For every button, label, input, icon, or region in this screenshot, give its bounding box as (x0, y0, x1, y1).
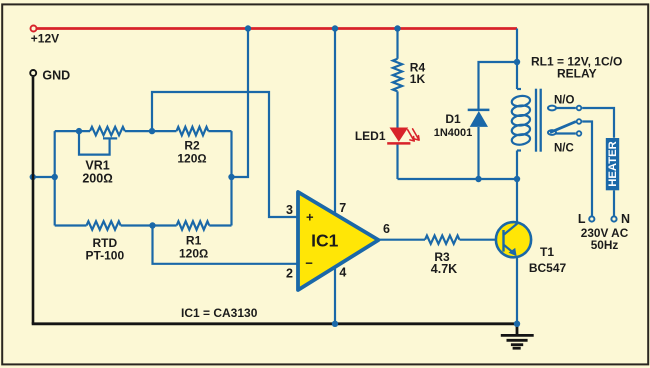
resistor R1 zigzag (177, 221, 210, 229)
wire emitter to ground (516, 255, 518, 324)
wire bridge +12V feed vertical (232, 29, 249, 178)
op-amp U1 triangle (298, 192, 379, 290)
svg-text:RELAY: RELAY (557, 66, 597, 80)
resistor VR1 zigzag (90, 127, 125, 135)
svg-text:50Hz: 50Hz (591, 238, 619, 252)
svg-text:LED1: LED1 (355, 129, 386, 143)
wire N/C pad to circle (556, 132, 576, 134)
node GND tap left (30, 174, 36, 180)
svg-text:4: 4 (339, 266, 346, 280)
terminal L (589, 216, 594, 221)
svg-text:6: 6 (383, 222, 390, 236)
node bridge right (228, 174, 234, 180)
node pin4 ground (332, 321, 338, 327)
node rail-bridge (245, 25, 251, 31)
svg-text:HEATER: HEATER (607, 141, 619, 187)
wire R4 to LED (396, 91, 398, 127)
svg-text:−: − (305, 256, 313, 271)
wire N/O to heater (582, 108, 614, 138)
terminal +12V (31, 26, 37, 32)
node emitter ground (514, 321, 520, 327)
LED1 triangle (390, 128, 409, 142)
wire R2 right (208, 130, 231, 132)
node D1 top (514, 59, 520, 65)
node C RTD-R1 (149, 222, 155, 228)
svg-text:L: L (578, 212, 586, 226)
wire N/O pad to circle (556, 107, 576, 109)
node relay bottom (514, 176, 520, 182)
svg-text:N: N (621, 212, 630, 226)
wire bridge left vertical (54, 131, 56, 225)
relay contact circle common (577, 119, 582, 124)
relay N/C contact pad (548, 130, 556, 135)
wire pin6 output (379, 239, 426, 241)
wire RTD to R1 (121, 224, 177, 226)
wire bottom horizontal LED-D1-relay (398, 178, 518, 180)
wire heater to N (613, 190, 615, 215)
svg-text:R2: R2 (184, 139, 200, 153)
resistor R4 zigzag (393, 59, 402, 92)
wire common to L (582, 122, 592, 216)
wire relay node to collector (516, 179, 518, 224)
relay coil loops (517, 88, 521, 90)
transistor collector diagonal (504, 224, 517, 235)
wire relay feed from rail (516, 29, 518, 90)
svg-text:IC1: IC1 (311, 231, 339, 251)
svg-text:200Ω: 200Ω (82, 171, 112, 185)
svg-text:+12V: +12V (31, 32, 59, 46)
node D1 bottom (475, 176, 481, 182)
wire GND black vertical (32, 77, 35, 324)
wire R3 to base (460, 239, 504, 241)
relay N/O contact pad (548, 106, 556, 111)
node rail-R4 (394, 25, 400, 31)
resistor RTD zigzag (87, 221, 121, 229)
svg-text:120Ω: 120Ω (179, 246, 208, 260)
wire R1 right (209, 224, 231, 226)
terminal N (611, 216, 616, 221)
wire bridge right vertical (230, 131, 232, 225)
diode D1 cathode bar (468, 109, 490, 112)
svg-text:IC1 = CA3130: IC1 = CA3130 (181, 306, 258, 320)
LED1 cathode bar (387, 142, 410, 145)
node A VR1-R2 (149, 128, 155, 134)
svg-text:BC547: BC547 (529, 261, 567, 275)
svg-text:4.7K: 4.7K (431, 262, 457, 276)
wire bridge bottom row left (55, 224, 87, 226)
svg-text:1N4001: 1N4001 (434, 127, 473, 139)
svg-text:1K: 1K (410, 72, 426, 86)
node GND tap right (52, 174, 58, 180)
transistor emitter diagonal (504, 245, 516, 255)
relay contact circle N/O (577, 106, 582, 111)
resistor R3 zigzag (425, 236, 459, 244)
transistor Q1 circle (496, 222, 531, 257)
heater box (606, 138, 619, 190)
svg-text:+: + (306, 210, 314, 225)
wire VR1 to R2 (125, 130, 177, 132)
wire node C to pin2 route (153, 226, 298, 264)
svg-text:N/O: N/O (554, 95, 575, 107)
svg-text:3: 3 (286, 203, 293, 217)
wire R4 branch top (396, 29, 398, 59)
svg-text:D1: D1 (445, 112, 461, 126)
terminal GND (30, 70, 36, 76)
wire ground bus black horizontal (32, 322, 518, 325)
wire node A to pin3 route (152, 92, 297, 217)
svg-text:GND: GND (42, 68, 70, 82)
wire +12V red rail (37, 27, 517, 30)
wire GND tap to bridge (33, 176, 55, 178)
svg-text:N/C: N/C (554, 143, 574, 155)
relay core bars (535, 89, 537, 152)
wire LED bottom (396, 143, 398, 179)
transistor emitter arrowhead (509, 248, 517, 256)
relay contact circle N/C (577, 131, 582, 136)
wire D1 bottom (477, 127, 479, 179)
svg-text:120Ω: 120Ω (177, 152, 206, 166)
svg-text:7: 7 (339, 201, 346, 215)
svg-text:T1: T1 (540, 245, 554, 259)
ground symbol (501, 324, 534, 348)
wire D1 top (479, 62, 518, 110)
node VR1 left (76, 128, 82, 134)
svg-text:PT-100: PT-100 (85, 248, 124, 262)
relay armature (550, 122, 576, 133)
diode D1 triangle (470, 111, 488, 127)
wire bridge top row left (55, 130, 90, 132)
wire pin4 to ground (334, 268, 336, 324)
svg-text:2: 2 (286, 267, 293, 281)
resistor R2 zigzag (177, 127, 209, 135)
wire pin7 to rail (334, 29, 336, 215)
svg-text:VR1: VR1 (85, 158, 109, 172)
VR1 wiper bar (103, 137, 117, 139)
LED1 light arrows (408, 129, 419, 141)
VR1 wiper loop (79, 131, 110, 155)
node rail-pin7 (332, 25, 338, 31)
wire relay coil bottom to node (516, 151, 518, 180)
transistor base bar (502, 230, 504, 252)
